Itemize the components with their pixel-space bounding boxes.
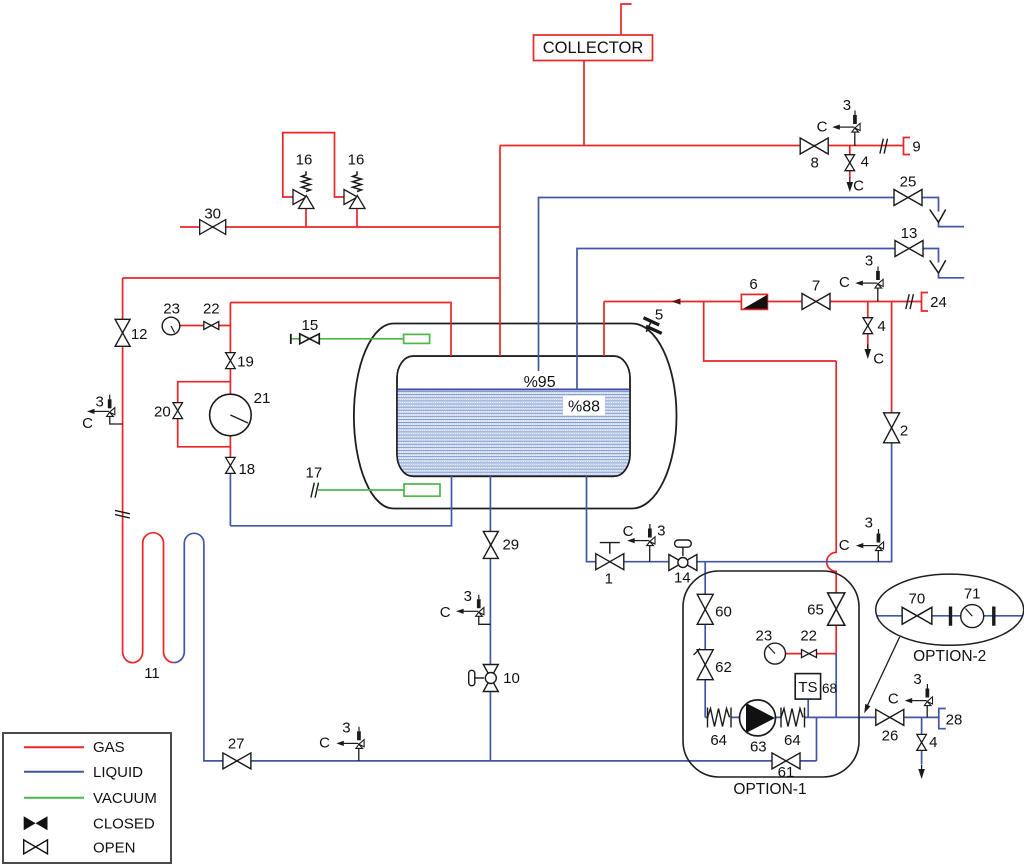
- wire valve-4 drain stem (valve 8 line): [849, 146, 851, 178]
- svg-text:4: 4: [861, 154, 869, 171]
- wire liquid line tank to valve 2: [587, 443, 892, 562]
- relief valve 3 at valve 1: [627, 524, 655, 546]
- wire vacuum line 15: [291, 338, 404, 340]
- relief valve 3 at valve 2: [856, 529, 884, 551]
- svg-text:14: 14: [674, 570, 691, 587]
- option-2 boundary ellipse: [876, 574, 1024, 645]
- wire dip tube to valve 13: [577, 249, 964, 391]
- relief valve 16 right: [344, 171, 365, 208]
- svg-text:11: 11: [144, 665, 160, 682]
- svg-text:26: 26: [882, 728, 899, 745]
- svg-text:C: C: [873, 351, 884, 368]
- svg-text:3: 3: [657, 523, 665, 540]
- svg-text:C: C: [853, 178, 864, 195]
- svg-text:9: 9: [912, 139, 920, 156]
- svg-text:22: 22: [203, 301, 220, 318]
- svg-text:OPTION-1: OPTION-1: [733, 781, 806, 798]
- valve 8: [800, 138, 828, 154]
- svg-text:12: 12: [131, 326, 148, 343]
- valve 65: [828, 593, 845, 625]
- valve 26: [876, 709, 904, 725]
- wire gas branch to option-1: [704, 302, 837, 654]
- wire valve-19 branch: [229, 303, 231, 382]
- wire gauge-21 loop: [178, 382, 231, 459]
- svg-text:OPEN: OPEN: [93, 840, 136, 857]
- svg-text:COLLECTOR: COLLECTOR: [543, 39, 644, 57]
- svg-text:3: 3: [464, 588, 472, 605]
- drain arrow below valve 4 (line 8): [847, 178, 854, 193]
- wire dip tube to valve 25: [539, 198, 965, 372]
- relief valve 3 at valve 8: [832, 111, 860, 133]
- flow arrow on gas header: [672, 298, 681, 304]
- svg-text:4: 4: [877, 318, 885, 335]
- wire right gas header y=301: [604, 302, 922, 357]
- liquid fill: [397, 389, 630, 476]
- svg-text:3: 3: [843, 97, 851, 114]
- valve 4 at line 26: [917, 734, 927, 750]
- relief elbow at valve 12: [110, 416, 123, 424]
- valve 4 at line 7: [863, 318, 873, 334]
- wire valve-4 drain stem (valve 26 line): [921, 717, 923, 764]
- valve 22 left: [204, 322, 219, 330]
- wire coil blue half + bottom liquid line: [174, 533, 817, 761]
- valve 15: [300, 334, 320, 344]
- legend open valve: [24, 840, 48, 854]
- legend gas sample: [24, 746, 84, 748]
- drain arrow below valve 4 (line 7): [865, 345, 872, 360]
- liquid surface line: [398, 388, 630, 390]
- svg-text:TS: TS: [798, 679, 817, 696]
- wire tank drain to valve 18 line: [230, 472, 451, 525]
- wire gauge-23 line: [180, 325, 230, 327]
- valve 4 at line 8: [845, 155, 855, 171]
- drain arrow below valve 4 (line 26): [918, 765, 925, 780]
- wire option-1 liquid drop: [704, 562, 706, 718]
- svg-text:28: 28: [946, 712, 963, 729]
- flex connector 64 right: [781, 708, 805, 728]
- svg-text:3: 3: [865, 253, 873, 270]
- svg-text:3: 3: [96, 394, 104, 411]
- option-1 boundary: [683, 571, 859, 777]
- svg-text:24: 24: [930, 294, 947, 311]
- svg-text:%95: %95: [524, 374, 556, 391]
- svg-text:70: 70: [909, 591, 926, 608]
- bracket end 9: [904, 138, 911, 155]
- valve 62: [694, 649, 714, 680]
- svg-text:C: C: [319, 735, 330, 752]
- wire relief-16 stubs and loop: [283, 133, 357, 227]
- svg-text:OPTION-2: OPTION-2: [913, 648, 986, 665]
- svg-text:21: 21: [254, 390, 271, 407]
- valve 13: [895, 241, 923, 257]
- svg-text:%88: %88: [568, 399, 600, 416]
- pipe break near 9: [880, 139, 888, 154]
- wire valve-4 drain stem (valve 7 line): [867, 302, 869, 350]
- svg-text:64: 64: [784, 732, 801, 749]
- wire collector top elbow: [621, 4, 632, 35]
- wire valve-30 header y=227: [180, 226, 500, 228]
- svg-text:C: C: [839, 537, 850, 554]
- gauge 23 left: [162, 317, 180, 335]
- wire tank drain through valves 29/10: [489, 476, 491, 761]
- relief valve 3 at valve 7: [855, 267, 883, 289]
- end bar at valve 15: [290, 334, 292, 344]
- valve 30: [200, 220, 226, 235]
- svg-text:15: 15: [302, 317, 319, 334]
- svg-text:4: 4: [929, 734, 937, 751]
- wire vacuum line 17: [318, 489, 404, 491]
- svg-text:16: 16: [348, 152, 365, 169]
- valve 7: [802, 294, 830, 310]
- tank inner vessel: [397, 356, 630, 476]
- svg-text:C: C: [888, 691, 899, 708]
- valve 20: [173, 403, 183, 419]
- nozzle valve 5: [644, 318, 662, 334]
- bracket end 24: [922, 293, 929, 312]
- TS thermostat box 68: [795, 674, 820, 700]
- svg-text:60: 60: [715, 604, 732, 621]
- svg-text:C: C: [839, 274, 850, 291]
- relief valve 3 at valve 27: [336, 727, 364, 749]
- pipe break on left gas drop: [115, 510, 130, 518]
- gauge 23 option-1: [765, 643, 786, 664]
- svg-text:C: C: [623, 523, 634, 540]
- valve 70: [902, 607, 932, 624]
- wire gas header y=145: [500, 145, 903, 147]
- svg-text:13: 13: [901, 225, 918, 242]
- svg-text:10: 10: [503, 670, 520, 687]
- svg-text:6: 6: [749, 276, 757, 293]
- svg-text:71: 71: [964, 586, 981, 603]
- valve 19: [226, 353, 236, 369]
- svg-text:30: 30: [204, 206, 221, 223]
- pump 63: [740, 700, 776, 736]
- valve 29: [483, 531, 498, 558]
- wire option-2 line: [877, 615, 1023, 617]
- valve 1: [596, 543, 624, 570]
- valve 61: [772, 753, 800, 769]
- svg-text:VACUUM: VACUUM: [93, 790, 157, 807]
- relief elbow at valve 29: [479, 616, 491, 624]
- svg-text:7: 7: [812, 278, 820, 295]
- valve 14: [669, 540, 697, 571]
- collector box: [534, 35, 653, 61]
- svg-text:2: 2: [900, 423, 908, 440]
- check valve 6: [741, 294, 767, 309]
- wire gas line y=302 into tank: [230, 303, 451, 357]
- vacuum sensor tube 15: [404, 334, 430, 343]
- svg-text:3: 3: [865, 515, 873, 532]
- flex connector 64 left: [708, 708, 732, 728]
- svg-text:22: 22: [800, 628, 817, 645]
- svg-text:29: 29: [502, 537, 519, 554]
- legend box: [3, 733, 171, 863]
- svg-text:GAS: GAS: [93, 739, 125, 756]
- gauge 71: [961, 605, 984, 628]
- svg-text:65: 65: [807, 602, 824, 619]
- valve 27: [223, 753, 251, 769]
- leader line option-2: [864, 637, 900, 713]
- wire TS stem: [807, 699, 809, 717]
- legend liquid sample: [24, 771, 84, 773]
- pipe break near 24: [906, 294, 914, 309]
- svg-text:17: 17: [306, 465, 323, 482]
- relief valve 3 at valve 26: [905, 684, 933, 706]
- svg-text:LIQUID: LIQUID: [93, 764, 143, 781]
- relief stems: [359, 132, 927, 761]
- svg-text:64: 64: [710, 732, 727, 749]
- valve 12: [115, 319, 130, 346]
- white patch for %88: [563, 396, 605, 416]
- svg-text:23: 23: [756, 628, 773, 645]
- vacuum sensor tube 17: [404, 484, 440, 496]
- valve 10: [469, 665, 499, 692]
- svg-text:C: C: [817, 119, 828, 136]
- gauge 21: [210, 394, 252, 436]
- valve 2: [884, 413, 900, 443]
- wire valve-2 stem: [891, 302, 893, 415]
- relief valve 3 at valve 29: [456, 595, 484, 617]
- wire center gas riser x=500: [499, 146, 501, 357]
- svg-text:23: 23: [163, 301, 180, 318]
- wire collector drop line: [583, 61, 585, 146]
- svg-text:18: 18: [238, 461, 255, 478]
- tank outer shell: [354, 323, 677, 508]
- vent funnel at valve 13: [930, 260, 946, 273]
- wire pump line segments: [705, 716, 938, 718]
- valve 18: [226, 457, 236, 473]
- svg-text:5: 5: [655, 307, 663, 324]
- svg-text:27: 27: [228, 736, 245, 753]
- flange ticks option-2: [951, 607, 994, 626]
- wire option-1 vertical lower blue: [835, 654, 837, 718]
- wire left gas line y=278: [123, 277, 500, 279]
- svg-text:CLOSED: CLOSED: [93, 816, 155, 833]
- svg-text:C: C: [440, 604, 451, 621]
- vent funnel at valve 25: [930, 210, 946, 223]
- svg-text:62: 62: [715, 659, 732, 676]
- svg-text:19: 19: [237, 354, 254, 371]
- relief valve 3 at valve 12: [87, 395, 115, 417]
- valve 25: [894, 190, 922, 206]
- wire option-1 gauge line: [786, 653, 837, 655]
- pipe break on green 17: [311, 483, 319, 498]
- legend vacuum sample: [24, 797, 84, 799]
- relief valve 16 left: [293, 171, 314, 208]
- svg-text:C: C: [82, 415, 93, 432]
- svg-text:20: 20: [154, 404, 171, 421]
- valve 60: [697, 594, 713, 624]
- valve 22 option-1: [802, 650, 817, 658]
- svg-text:3: 3: [913, 671, 921, 688]
- svg-text:8: 8: [811, 155, 819, 172]
- wire left gas drop + coil red half: [123, 278, 174, 663]
- svg-text:68: 68: [822, 681, 837, 696]
- wire valve-61 branch: [816, 717, 818, 761]
- svg-text:1: 1: [605, 571, 613, 588]
- svg-text:16: 16: [296, 152, 313, 169]
- legend closed valve: [24, 816, 48, 830]
- svg-text:3: 3: [342, 720, 350, 737]
- svg-text:61: 61: [778, 764, 795, 781]
- svg-text:63: 63: [750, 739, 767, 756]
- svg-text:25: 25: [900, 174, 917, 191]
- bracket end 28: [939, 709, 946, 729]
